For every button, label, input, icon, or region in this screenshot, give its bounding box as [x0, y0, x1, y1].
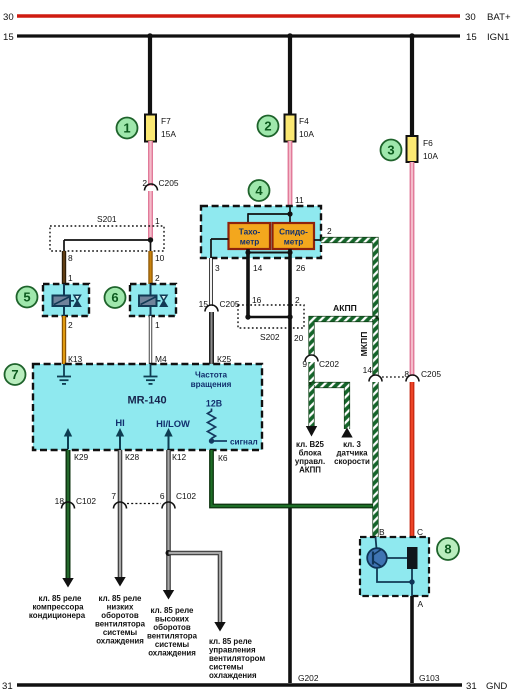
- connector C205 pin 2 labels: [142, 178, 179, 188]
- svg-text:7: 7: [11, 367, 18, 382]
- svg-text:К28: К28: [125, 452, 140, 462]
- svg-text:5: 5: [23, 290, 30, 305]
- label кл. 3 датчика скорости: [334, 440, 370, 466]
- solenoid valve 6 box: [130, 284, 176, 316]
- svg-text:20: 20: [294, 333, 304, 343]
- resistor inside MR-140: [208, 409, 216, 442]
- callout circle 6: [105, 287, 126, 308]
- wire dashed link C102 pins 7-6: [127, 503, 161, 505]
- svg-text:4: 4: [255, 183, 263, 198]
- wire grey branch to fan control relay: [169, 553, 221, 623]
- label Частота вращения: [191, 371, 232, 390]
- svg-text:15A: 15A: [161, 129, 176, 139]
- svg-text:G103: G103: [419, 673, 440, 683]
- wire green K6 signal to speed sensor net: [212, 450, 376, 506]
- speed sensor box: [360, 537, 429, 596]
- svg-text:8: 8: [68, 253, 73, 263]
- arrow to A/C compressor relay: [62, 578, 73, 588]
- wire inside sensor B to transistor: [376, 537, 377, 549]
- wire from bus 15 to fuse F6: [410, 36, 414, 137]
- output arrow K29 inside MR-140: [64, 428, 72, 449]
- wire white valve 6 pin 1 to MR-140 pin M4: [149, 316, 152, 364]
- svg-text:BAT+: BAT+: [487, 12, 511, 23]
- svg-text:2: 2: [327, 226, 332, 236]
- svg-text:метр: метр: [240, 238, 260, 247]
- wire inside cluster speedometer to pin 2: [314, 239, 321, 241]
- wire inside S202: [248, 316, 290, 318]
- connector C205 pin 8 symbol: [406, 375, 419, 381]
- svg-text:GND: GND: [486, 681, 507, 692]
- svg-text:1: 1: [123, 121, 130, 136]
- connector C102 pin 6 labels: [160, 491, 197, 501]
- label кл.85 реле высоких оборотов: [147, 606, 198, 658]
- arrow to fan control relay: [214, 622, 225, 632]
- svg-text:1: 1: [155, 216, 160, 226]
- svg-text:C: C: [417, 527, 423, 537]
- svg-text:9: 9: [302, 359, 307, 369]
- connector C205 pin 14 symbol: [369, 375, 382, 381]
- wire black S202 pin 20 to ground G202: [288, 317, 292, 683]
- valve symbol (valve 5): [70, 295, 81, 306]
- fuse F7 body: [145, 115, 156, 142]
- svg-text:М4: М4: [155, 354, 167, 364]
- valve symbol (valve 6): [157, 295, 168, 306]
- svg-text:15: 15: [199, 299, 209, 309]
- ECM MR-140 box: [33, 364, 262, 450]
- svg-text:31: 31: [466, 681, 477, 692]
- svg-text:МКПП: МКПП: [359, 332, 369, 357]
- node under speedometer: [287, 250, 292, 255]
- svg-text:3: 3: [387, 143, 394, 158]
- svg-text:Тахо-: Тахо-: [239, 228, 261, 237]
- output arrow K12 inside MR-140: [164, 428, 172, 449]
- svg-text:26: 26: [296, 263, 306, 273]
- svg-text:6: 6: [111, 290, 118, 305]
- node S202 pin 2: [287, 314, 292, 319]
- wire inside cluster tachometer to pin 3: [211, 239, 229, 258]
- svg-text:MR-140: MR-140: [127, 395, 166, 407]
- connector C205 pin 15 labels: [199, 299, 240, 309]
- node junction green/striped: [373, 503, 379, 509]
- pin 20 label... (none) connector C202 pin 9 symbol: [305, 355, 318, 362]
- wire black pin 26 to S202 pin 2: [288, 249, 292, 317]
- node S202 pin 16: [245, 314, 250, 319]
- wire joining gauge grounds: [248, 252, 290, 254]
- svg-text:F4: F4: [299, 116, 309, 126]
- svg-text:15: 15: [3, 32, 14, 43]
- label кл.85 реле компрессора кондиционера: [29, 594, 86, 620]
- node signal junction: [209, 438, 214, 443]
- node pin A junction: [409, 579, 414, 584]
- solenoid valve 5 box: [43, 284, 89, 316]
- svg-text:30: 30: [3, 12, 14, 23]
- solenoid coil symbol (valve 6): [139, 296, 157, 307]
- fuse F6 value label: [423, 138, 438, 161]
- svg-text:30: 30: [465, 12, 476, 23]
- wire black sensor pin A to ground G103: [410, 596, 414, 683]
- svg-text:К29: К29: [74, 452, 89, 462]
- wire striped C202 to AKPP split: [308, 362, 314, 386]
- svg-text:2: 2: [295, 295, 300, 305]
- transistor symbol: [367, 548, 387, 568]
- wire orange S201 to valve 6 pin 2: [148, 251, 152, 284]
- wire inside cluster from pin 11: [289, 206, 291, 223]
- svg-text:АКПП: АКПП: [299, 466, 321, 475]
- connector C102 pin 6 symbol: [162, 502, 175, 508]
- wire white pin3 to C205 pin 15: [209, 258, 213, 306]
- connector C102 pin 18 symbol: [62, 502, 75, 508]
- wire orange valve 5 pin 2 to MR-140 pin K13: [62, 316, 66, 364]
- svg-text:S202: S202: [260, 332, 280, 342]
- svg-text:C102: C102: [76, 496, 96, 506]
- node junction on K12 wire: [166, 550, 172, 556]
- svg-text:К6: К6: [218, 453, 228, 463]
- svg-text:F7: F7: [161, 116, 171, 126]
- connector C102 pin 7 symbol: [114, 502, 127, 508]
- svg-text:АКПП: АКПП: [333, 303, 357, 313]
- wire black pin 14 to S202 pin 16: [246, 249, 250, 317]
- svg-text:11: 11: [295, 195, 304, 205]
- svg-text:HI/LOW: HI/LOW: [156, 418, 190, 429]
- svg-text:кондиционера: кондиционера: [29, 611, 86, 620]
- svg-text:14: 14: [363, 365, 373, 375]
- node striped junction: [372, 315, 379, 322]
- svg-text:2: 2: [155, 273, 160, 283]
- svg-text:10: 10: [155, 253, 165, 263]
- svg-text:1: 1: [155, 320, 160, 330]
- node junction on bus 15 at F7 branch: [147, 33, 153, 39]
- callout circle 3: [381, 140, 402, 161]
- wire red C205 to speed sensor pin C: [410, 382, 415, 548]
- wire dark green K29 to C102 pin 18: [66, 450, 71, 579]
- node under tachometer: [245, 250, 250, 255]
- svg-text:7: 7: [111, 491, 116, 501]
- node S201 junction: [148, 237, 153, 242]
- wire pink F7 to C205 pin 2: [148, 141, 153, 186]
- callout circle 7: [5, 364, 26, 385]
- svg-text:F6: F6: [423, 138, 433, 148]
- svg-text:HI: HI: [115, 417, 124, 428]
- svg-text:A: A: [418, 599, 424, 609]
- svg-text:18: 18: [55, 496, 65, 506]
- svg-text:6: 6: [160, 491, 165, 501]
- splice S201 box: [50, 226, 164, 251]
- callout circle 1: [117, 118, 138, 139]
- svg-text:C202: C202: [319, 359, 339, 369]
- svg-text:3: 3: [215, 263, 220, 273]
- svg-text:К12: К12: [172, 452, 187, 462]
- callout circle 8: [437, 538, 459, 560]
- ground symbol inside MR-140 (K13): [57, 364, 71, 384]
- fuse F4 value label: [299, 116, 314, 139]
- wire green/white striped cluster pin 2 to junction: [321, 240, 376, 319]
- wire from bus 15 to fuse F7: [148, 36, 152, 116]
- svg-text:8: 8: [444, 542, 451, 557]
- node junction on bus 15 at F4 branch: [287, 33, 293, 39]
- svg-text:15: 15: [466, 32, 477, 43]
- output arrow K28 inside MR-140: [116, 428, 124, 449]
- wire dark grey C205 to MR-140 pin K25: [209, 312, 214, 364]
- wire grey K12 to high speed relay: [166, 450, 171, 591]
- svg-text:2: 2: [264, 119, 271, 134]
- connector C205 pin 8 labels: [404, 369, 441, 379]
- svg-text:2: 2: [142, 178, 147, 188]
- svg-text:14: 14: [253, 263, 263, 273]
- svg-text:Частота: Частота: [195, 371, 228, 380]
- arrow to high speed fan relay: [163, 590, 174, 600]
- callout circle 2: [258, 116, 279, 137]
- wire pink C205 to splice S201: [148, 191, 153, 240]
- wire pink F4 to instrument cluster pin 11: [288, 141, 293, 207]
- arrow to low speed fan relay: [114, 577, 125, 587]
- tachometer block: [229, 223, 271, 249]
- speedometer block: [273, 223, 315, 249]
- sensor element (resistive): [407, 547, 418, 569]
- wire inside valve 6: [150, 284, 152, 316]
- svg-text:IGN1: IGN1: [487, 32, 509, 43]
- wire striped split down to TCM branch: [308, 385, 314, 427]
- wire striped junction to C205 pin 14: [372, 319, 378, 376]
- wire striped AKPP branch to C202 pin 9: [312, 319, 376, 355]
- svg-text:16: 16: [252, 295, 262, 305]
- connector C205 pin 15 symbol: [205, 305, 218, 311]
- wire to signal label: [212, 440, 228, 442]
- svg-text:К25: К25: [217, 354, 232, 364]
- wire dotted link C205 pins 14-8: [382, 376, 405, 378]
- callout circle 5: [17, 287, 38, 308]
- wire bus 31 (black): [17, 683, 462, 686]
- svg-text:сигнал: сигнал: [230, 438, 258, 447]
- label кл.85 реле низких оборотов: [95, 594, 146, 646]
- svg-text:охлаждения: охлаждения: [209, 671, 257, 680]
- fuse F4 body: [285, 115, 296, 142]
- wire striped C205 pin 14 to speed sensor pin B: [372, 382, 378, 537]
- ground symbol inside MR-140 (M4): [144, 364, 158, 384]
- wire bus 15 (black): [17, 34, 460, 37]
- wire pink F6 to C205 pin 8: [410, 162, 415, 376]
- node AKPP split: [309, 382, 315, 388]
- fuse F6 body: [407, 136, 418, 162]
- wire inside sensor transistor to element: [387, 557, 407, 559]
- label кл.85 реле управления вентилятором: [209, 637, 265, 680]
- wire inside valve 5: [63, 284, 65, 316]
- svg-text:S201: S201: [97, 214, 117, 224]
- splice S202 box: [238, 305, 304, 328]
- svg-text:10A: 10A: [299, 129, 314, 139]
- node inside cluster: [287, 211, 292, 216]
- svg-text:8: 8: [404, 369, 409, 379]
- connector C102 pin 18 labels: [55, 496, 97, 506]
- label кл. B25 блока управл. АКПП: [295, 440, 325, 475]
- instrument cluster U4 box: [201, 206, 321, 258]
- arrow from speed sensor (up): [341, 428, 352, 438]
- svg-text:C205: C205: [220, 299, 240, 309]
- wire from bus 15 to fuse F4: [288, 36, 292, 116]
- svg-text:скорости: скорости: [334, 457, 370, 466]
- arrow to TCM pin B25: [306, 426, 317, 437]
- svg-text:охлаждения: охлаждения: [96, 637, 144, 646]
- wire inside sensor emitter to pin A: [377, 568, 412, 582]
- wire striped split to speed sensor input branch: [312, 385, 348, 429]
- svg-text:10A: 10A: [423, 151, 438, 161]
- svg-text:Спидо-: Спидо-: [279, 228, 308, 237]
- svg-text:G202: G202: [298, 673, 319, 683]
- fuse F7 value label: [161, 116, 176, 139]
- connector C205 pin 2 symbol: [145, 184, 158, 191]
- svg-text:B: B: [379, 527, 385, 537]
- svg-text:1: 1: [68, 273, 73, 283]
- svg-text:метр: метр: [284, 238, 304, 247]
- svg-text:К13: К13: [68, 354, 83, 364]
- wire inside cluster to tachometer: [248, 213, 290, 223]
- svg-text:C205: C205: [421, 369, 441, 379]
- wire dark brown S201 to valve 5 pin 1: [62, 251, 66, 284]
- svg-text:12В: 12В: [206, 399, 222, 409]
- wire inside sensor element to pin A: [411, 569, 413, 596]
- svg-text:31: 31: [2, 681, 13, 692]
- svg-text:охлаждения: охлаждения: [148, 649, 196, 658]
- node junction on bus 15 at F6 branch: [409, 33, 415, 39]
- wire bus 30 (red): [17, 14, 460, 17]
- svg-text:C102: C102: [176, 491, 196, 501]
- svg-text:вращения: вращения: [191, 380, 232, 389]
- svg-text:2: 2: [68, 320, 73, 330]
- callout circle 4: [249, 180, 270, 201]
- solenoid coil symbol (valve 5): [53, 296, 71, 307]
- connector C202 pin 9 labels: [302, 359, 339, 369]
- svg-text:C205: C205: [159, 178, 179, 188]
- wire grey K28 to low speed relay: [118, 450, 123, 578]
- wire inside S201: [64, 240, 151, 251]
